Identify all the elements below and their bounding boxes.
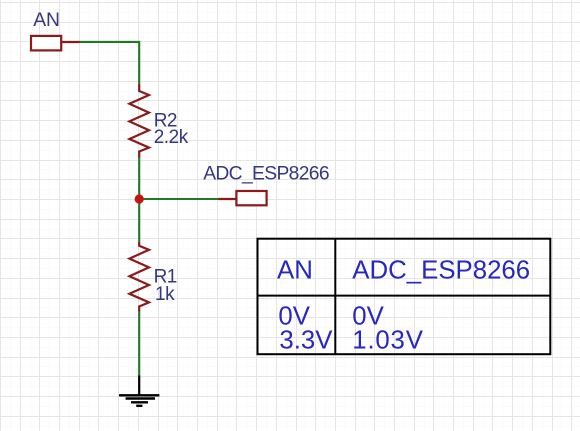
junction node: [135, 194, 144, 203]
svg-text:3.3V: 3.3V: [279, 327, 333, 355]
ground: [119, 376, 159, 406]
port AN: [31, 36, 80, 51]
wire AN port to corner: [79, 42, 139, 85]
svg-text:ADC_ESP8266: ADC_ESP8266: [203, 163, 329, 184]
svg-text:1.03V: 1.03V: [352, 327, 423, 355]
svg-text:ADC_ESP8266: ADC_ESP8266: [352, 256, 530, 284]
svg-text:AN: AN: [277, 256, 313, 284]
svg-text:AN: AN: [33, 10, 60, 31]
wire junction to ADC port: [139, 198, 218, 200]
wire junction to R1 top: [138, 199, 140, 242]
resistor R2: [129, 84, 149, 157]
svg-text:2.2k: 2.2k: [154, 127, 189, 148]
svg-text:1k: 1k: [155, 284, 175, 305]
wire R1 bottom to ground: [138, 311, 140, 375]
resistor R1: [129, 242, 149, 312]
wire R2 bottom to junction: [138, 157, 140, 199]
table: [258, 239, 551, 355]
port ADC_ESP8266: [218, 191, 266, 205]
